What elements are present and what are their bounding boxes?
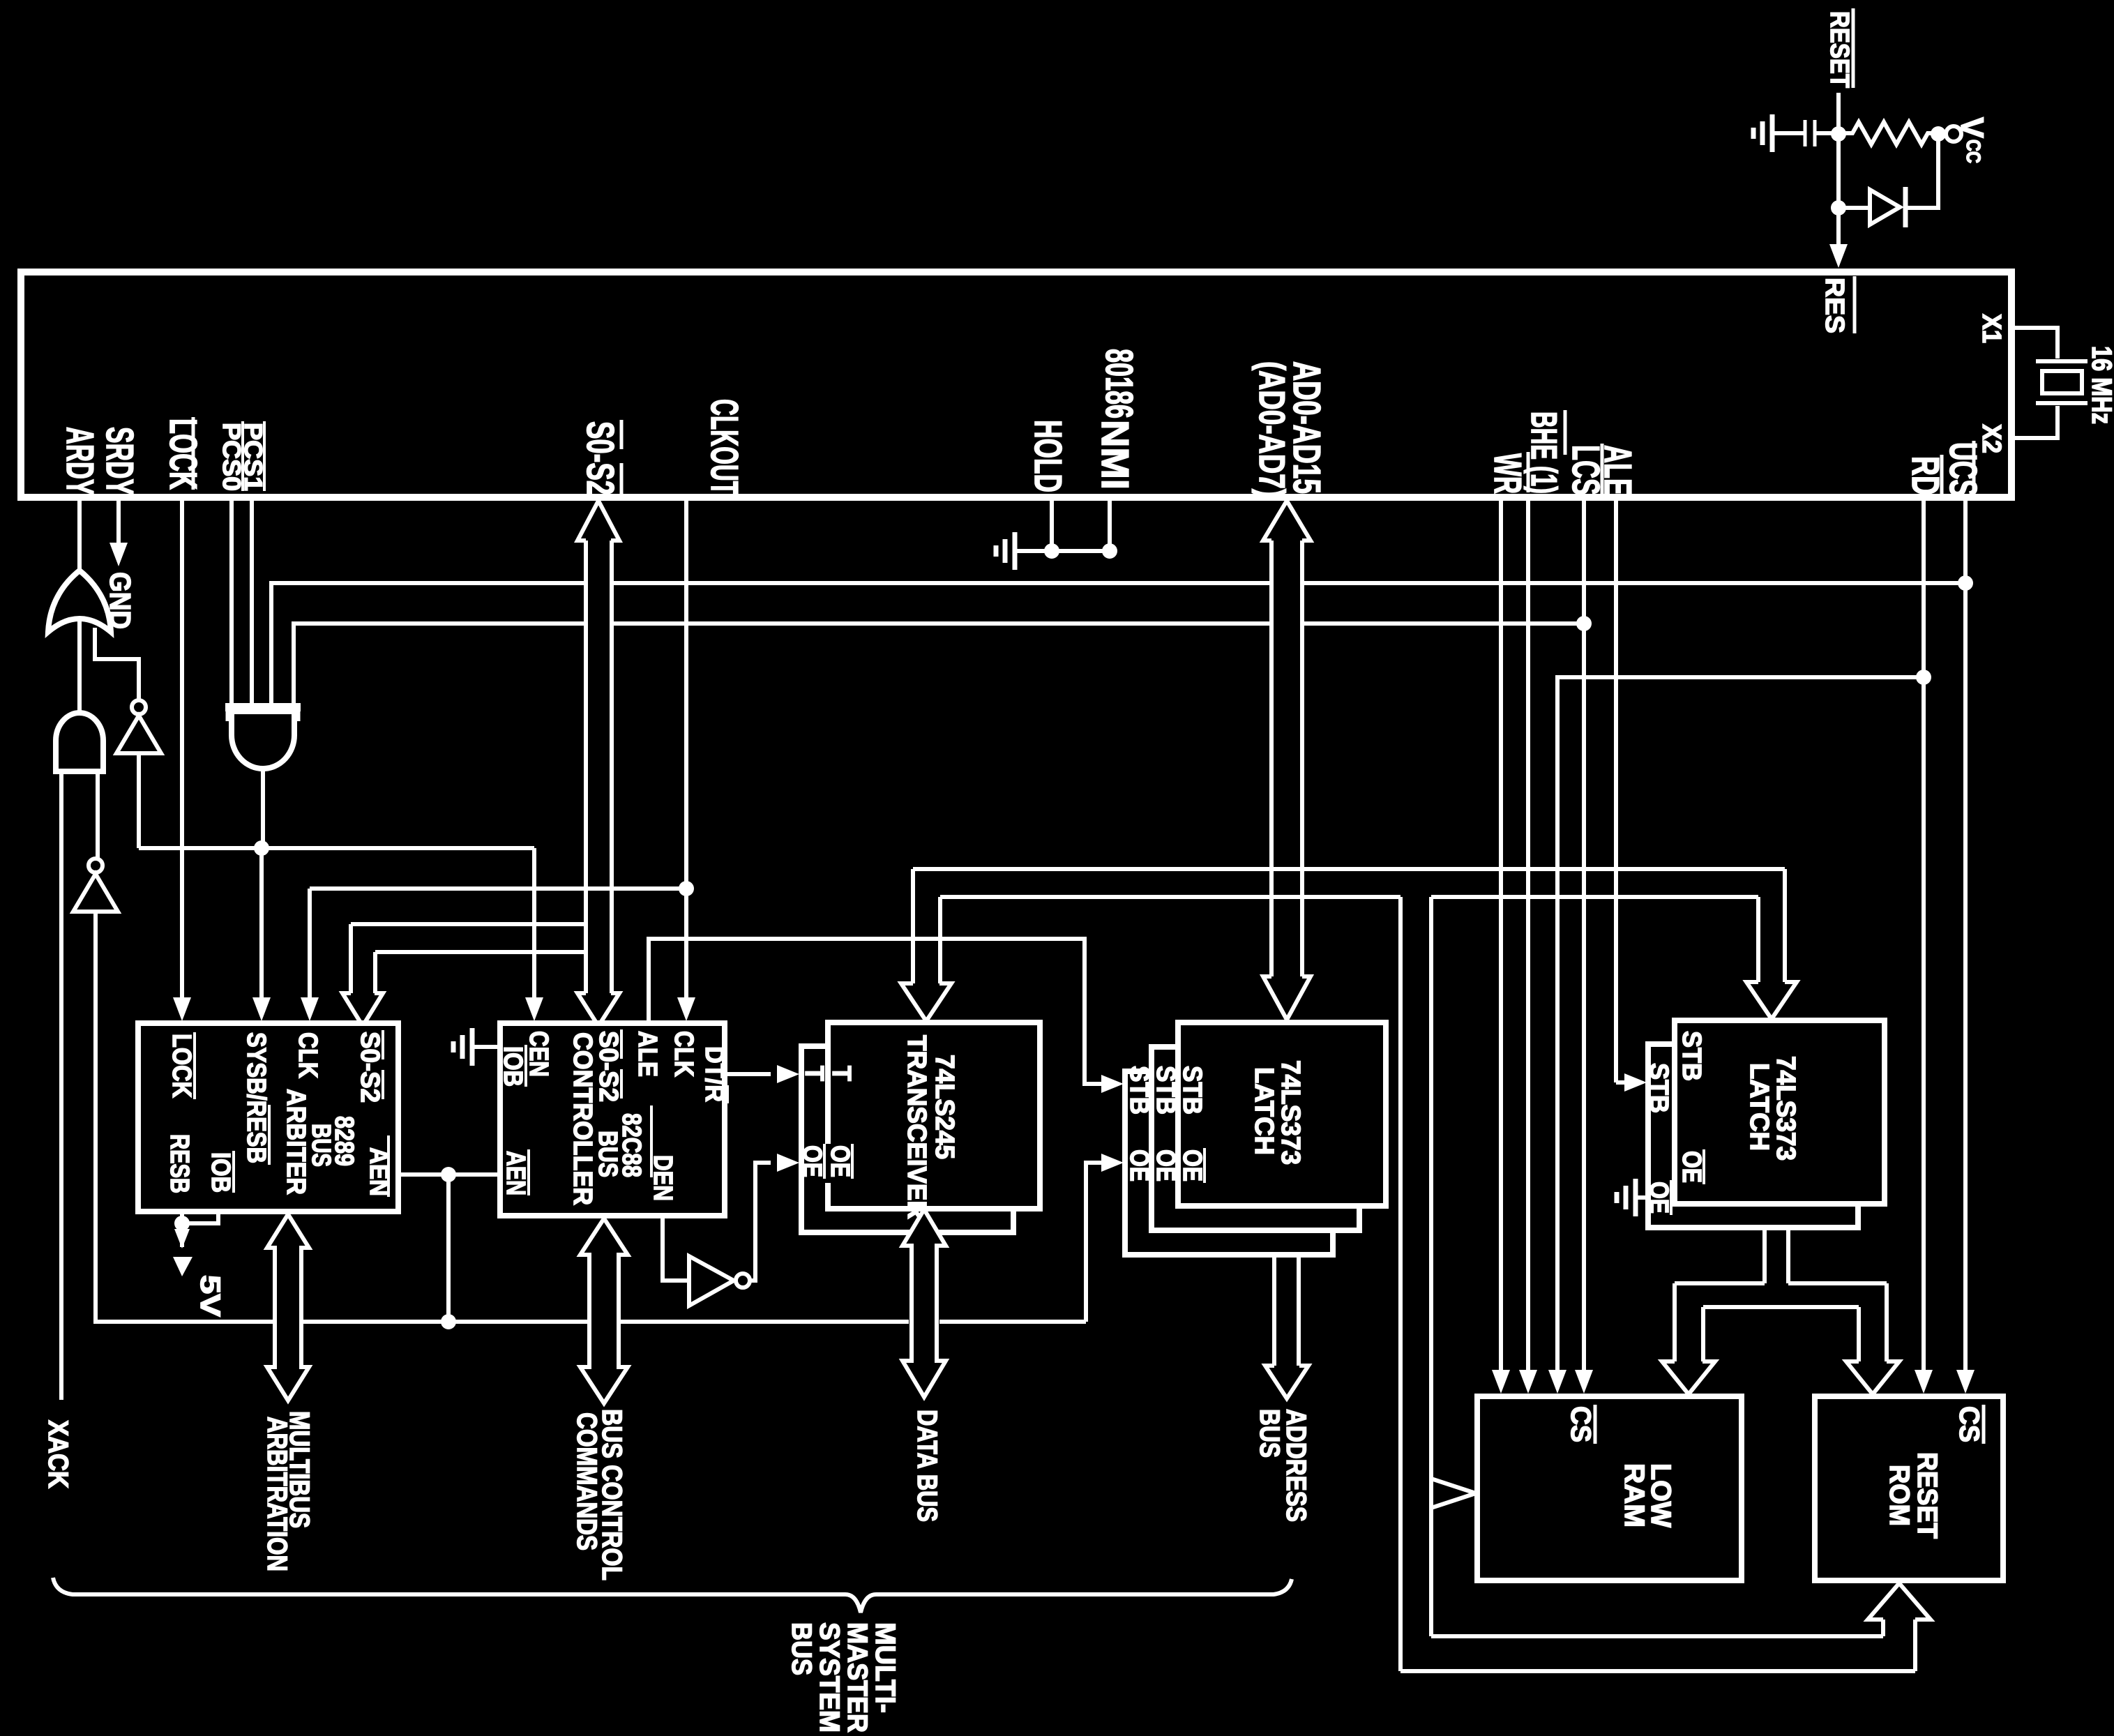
svg-text:TRANSCEIVER: TRANSCEIVER <box>902 1035 931 1219</box>
wire CLK feed to 8289 <box>586 886 686 891</box>
wire OR input 2 elbow <box>95 628 139 700</box>
wire X1 <box>2013 328 2058 358</box>
svg-text:OE: OE <box>797 1145 826 1177</box>
crystal Y1 16 MHz <box>2036 359 2087 363</box>
chip U5 74LS373 latch <box>1178 1022 1386 1206</box>
svg-text:OE: OE <box>1177 1149 1207 1182</box>
chip U4b 74LS245 (second) <box>801 1046 1013 1232</box>
inverter G3 <box>132 700 146 714</box>
wire CEN feed <box>532 848 536 1000</box>
svg-text:OE: OE <box>825 1145 854 1177</box>
chip U5c 74LS373 (third) <box>1125 1071 1333 1255</box>
svg-text:OE: OE <box>1124 1149 1154 1182</box>
CPU U1 80186 <box>21 272 2011 497</box>
wire latch2 address out fork <box>1762 1228 1767 1283</box>
wire PCS0 <box>229 497 234 709</box>
svg-text:CC: CC <box>1963 139 1984 163</box>
svg-text:ALE: ALE <box>1596 445 1640 495</box>
svg-text:74LS373: 74LS373 <box>1771 1056 1800 1161</box>
wire PCS1 <box>250 497 254 709</box>
svg-text:UCS: UCS <box>1942 442 1985 497</box>
svg-text:CONTROLLER: CONTROLLER <box>568 1032 597 1205</box>
svg-text:SYSTEM: SYSTEM <box>814 1622 845 1733</box>
diode D1 <box>1831 200 1846 216</box>
wire UCS <box>1963 497 1968 1373</box>
svg-text:74LS373: 74LS373 <box>1276 1060 1305 1165</box>
svg-text:V: V <box>1954 117 1991 138</box>
bus branch down to RAM/ROM <box>1398 897 1403 1671</box>
svg-text:ALE: ALE <box>633 1031 662 1077</box>
brace multi-master system bus <box>53 1578 1292 1613</box>
svg-text:STB: STB <box>1177 1066 1207 1115</box>
node SYSB junction <box>254 840 269 856</box>
bus branch to latch2 <box>1783 869 1787 982</box>
wire RD <box>1922 497 1926 1373</box>
chip U7 LOW RAM <box>1477 1396 1742 1580</box>
wire diode cathode to Vcc <box>1905 134 1938 208</box>
svg-text:NMI: NMI <box>1094 420 1137 490</box>
wire ARDY <box>77 497 82 716</box>
svg-text:S0-S2: S0-S2 <box>594 1031 623 1102</box>
resistor R1 <box>1839 122 1938 144</box>
wire CLK feed seg2 <box>612 886 686 891</box>
wire AEN to latch OE <box>1086 1163 1101 1322</box>
wire BHE <box>1526 497 1530 1373</box>
wire DEN inverted to OE <box>750 1163 771 1281</box>
svg-text:S0-S2: S0-S2 <box>355 1032 384 1103</box>
svg-text:5V: 5V <box>195 1275 225 1317</box>
and-gate G2 <box>56 713 103 771</box>
wire SYSB/CEN net <box>139 846 534 850</box>
svg-text:CS: CS <box>1954 1406 1984 1442</box>
svg-text:GND: GND <box>104 572 137 629</box>
svg-text:STB: STB <box>1124 1066 1154 1115</box>
wire X2 <box>2013 406 2058 438</box>
chip U6b 74LS373 (second) <box>1648 1044 1858 1228</box>
pin SRDY to GND <box>116 497 121 545</box>
wire G4 input from AEN net <box>96 912 275 1322</box>
svg-text:ARDY: ARDY <box>59 427 102 495</box>
bus S0-S2 branch to 8289 <box>351 922 586 926</box>
svg-text:HOLD: HOLD <box>1027 420 1070 492</box>
bus DATA BUS <box>903 1209 946 1397</box>
svg-text:IOB: IOB <box>498 1046 527 1087</box>
wire RD branch (C) <box>1557 677 1924 1373</box>
svg-text:BUS: BUS <box>1254 1409 1285 1458</box>
node Vcc junction <box>1931 126 1946 142</box>
svg-text:LOCK: LOCK <box>167 1034 196 1098</box>
svg-text:CLK: CLK <box>293 1032 322 1078</box>
chip U5b 74LS373 (second) <box>1152 1047 1359 1230</box>
svg-text:COMMANDS: COMMANDS <box>571 1412 602 1550</box>
svg-text:SYSB/RESB: SYSB/RESB <box>241 1032 271 1163</box>
wire G2 inputs <box>59 771 63 1400</box>
wire SYSB feed <box>259 848 264 1000</box>
wire HOLD/NMI to GND <box>1050 497 1054 551</box>
svg-text:T: T <box>826 1066 856 1081</box>
bus MULTIBUS ARBITRATION <box>267 1214 309 1401</box>
chip U4 74LS245 transceiver <box>828 1022 1040 1209</box>
wire DEN <box>663 1216 689 1281</box>
svg-text:STB: STB <box>1677 1031 1706 1081</box>
chip U3 82C88 bus controller <box>500 1023 725 1216</box>
wire WR <box>1499 497 1503 1373</box>
svg-text:(AD0-AD7): (AD0-AD7) <box>1251 361 1292 498</box>
svg-text:RESET: RESET <box>1912 1452 1942 1539</box>
ground (IOB) <box>472 1045 500 1049</box>
svg-text:RESB: RESB <box>165 1134 194 1193</box>
svg-text:STB: STB <box>1644 1063 1673 1113</box>
svg-text:OE: OE <box>1677 1151 1706 1183</box>
wire LCS net (B) <box>294 624 586 709</box>
wire UCS net (A) <box>271 583 586 709</box>
wire RESB/IOB to +5V <box>180 1212 184 1247</box>
svg-text:OE: OE <box>1644 1182 1673 1214</box>
and-gate G5 (chip select) <box>225 703 301 711</box>
bus S0-S2 <box>577 501 619 541</box>
bus BUS CONTROL COMMANDS <box>580 1218 628 1403</box>
svg-text:MULTI-: MULTI- <box>870 1622 900 1713</box>
svg-text:ARBITRATION: ARBITRATION <box>262 1417 292 1571</box>
chip U8 RESET ROM <box>1815 1396 2003 1580</box>
capacitor C1 <box>1804 120 1807 146</box>
wire AEN net <box>398 1172 500 1177</box>
svg-text:X1: X1 <box>1977 314 2006 343</box>
svg-text:SRDY: SRDY <box>98 427 142 495</box>
wire AEN along bottom <box>301 1320 448 1324</box>
svg-text:MASTER: MASTER <box>842 1622 873 1733</box>
wire ALE <box>1614 497 1618 1082</box>
chip U6 74LS373 latch <box>1675 1020 1885 1204</box>
bus AD band <box>913 867 1785 871</box>
svg-text:DATA BUS: DATA BUS <box>912 1410 942 1522</box>
svg-text:CEN: CEN <box>524 1031 553 1077</box>
svg-text:T: T <box>799 1066 829 1081</box>
bus ADDRESS BUS <box>1272 1255 1276 1366</box>
svg-text:BUS: BUS <box>786 1622 817 1675</box>
wire LOCK feed <box>180 497 184 1000</box>
wire DT/R to transceiver <box>725 1072 771 1076</box>
svg-text:74LS245: 74LS245 <box>930 1055 959 1159</box>
svg-text:S0-S2: S0-S2 <box>579 421 622 495</box>
bus arrow into LOW RAM left <box>1431 1479 1476 1508</box>
bus AD0-AD15 <box>1263 501 1311 541</box>
svg-text:IOB: IOB <box>206 1152 235 1193</box>
svg-text:CLKOUT: CLKOUT <box>703 399 746 495</box>
ground (reset RC) <box>1770 114 1775 152</box>
chip U2 8289 bus arbiter <box>138 1023 398 1212</box>
svg-text:RESET: RESET <box>1825 11 1854 88</box>
svg-text:CLK: CLK <box>669 1031 698 1077</box>
svg-text:BHE (1): BHE (1) <box>1523 412 1564 494</box>
svg-text:RES: RES <box>1820 278 1849 333</box>
svg-text:WR: WR <box>1486 453 1530 494</box>
svg-text:LATCH: LATCH <box>1249 1067 1278 1155</box>
wire 82C88 ALE out <box>649 939 1101 1084</box>
svg-text:CS: CS <box>1565 1406 1596 1442</box>
svg-text:LATCH: LATCH <box>1744 1063 1774 1151</box>
svg-text:DT/R: DT/R <box>700 1046 729 1102</box>
inverter G4 <box>89 859 103 873</box>
svg-text:OE: OE <box>1151 1149 1180 1182</box>
svg-text:ARBITER: ARBITER <box>281 1089 310 1195</box>
or-gate G1 (ARDY) <box>48 571 111 632</box>
svg-text:AEN: AEN <box>501 1151 530 1195</box>
wire CLKOUT <box>684 497 688 1000</box>
svg-text:16 MHz: 16 MHz <box>2086 346 2114 424</box>
svg-text:ROM: ROM <box>1884 1465 1915 1526</box>
svg-text:80186: 80186 <box>1098 349 1141 418</box>
ground (latch2 OE) <box>1636 1195 1648 1200</box>
inverter G6 (DEN) <box>689 1256 734 1306</box>
svg-text:LOCK: LOCK <box>162 418 205 490</box>
svg-text:RAM: RAM <box>1619 1463 1649 1527</box>
svg-text:STB: STB <box>1151 1066 1180 1115</box>
wire ALE to latch2 STB <box>1616 1080 1626 1085</box>
wire LCS <box>1582 497 1586 1373</box>
svg-text:XACK: XACK <box>43 1420 73 1488</box>
terminal Vcc <box>1946 126 1961 142</box>
wire RESET to RES pin <box>1836 93 1841 246</box>
bus branch to transceiver <box>911 869 915 983</box>
wire G5 output <box>261 766 265 848</box>
node RC junction <box>1831 126 1846 142</box>
